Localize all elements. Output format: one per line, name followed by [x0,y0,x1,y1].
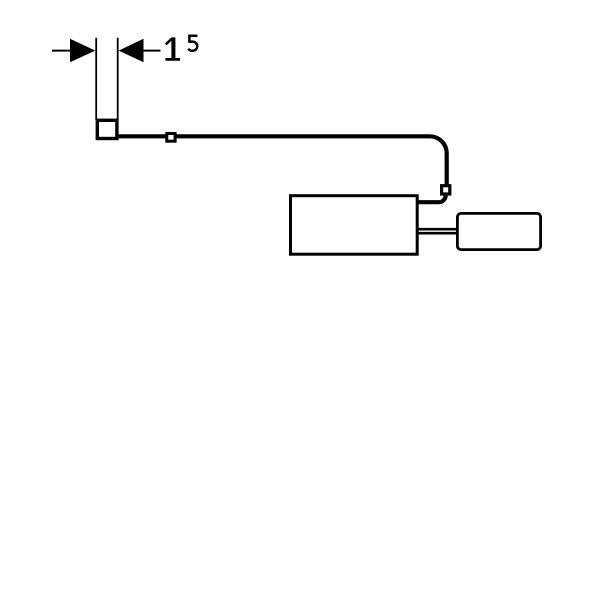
extension line right [117,38,119,120]
wire lower between control box and plug [418,232,458,235]
wire upper between control box and plug [418,228,458,231]
plug box [457,213,540,249]
dimension value superscript 5 [188,36,197,51]
cable marker square [167,134,175,142]
cable wire from connector to control box [417,194,446,203]
cable wire from conduit to connector [119,136,447,184]
extension line left [95,38,97,120]
dimension value digit 1 [165,37,180,60]
connector square [442,186,450,194]
dimension leader line left [52,50,74,52]
conduit square [97,120,117,138]
control box [291,196,418,255]
dimension arrowhead left [70,39,95,63]
dimension leader line right [142,50,161,52]
dimension arrowhead right [119,39,144,63]
